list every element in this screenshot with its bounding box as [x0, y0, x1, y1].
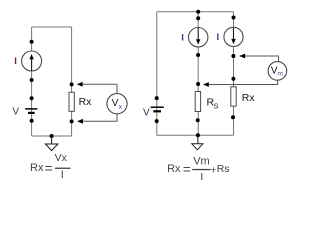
svg-text:I: I — [61, 169, 64, 180]
node dot above current source I — [30, 40, 34, 44]
wire right branch (I source + Rx) — [233, 12, 235, 136]
node dot above battery V — [30, 96, 34, 100]
resistor Rx (right circuit) — [231, 87, 236, 106]
ground symbol left circuit — [45, 136, 58, 151]
wire Vx bottom probe — [83, 114, 117, 122]
node dot Rx bottom — [70, 119, 74, 123]
wire top rail left circuit — [32, 26, 72, 28]
svg-text:Rx: Rx — [30, 162, 44, 174]
wire bottom rail left circuit — [32, 135, 72, 137]
node dot ground junction — [50, 134, 54, 138]
formula left: Rx = Vx / I — [30, 152, 71, 181]
arrowhead Vm top probe — [239, 54, 245, 59]
formula right fraction bar — [192, 169, 210, 170]
wire right branch (Rx branch) — [71, 27, 73, 136]
node dot below battery — [30, 119, 34, 123]
node dot top rail junction — [196, 10, 200, 14]
current source I2 (arrow down) — [224, 27, 243, 46]
node dot below current source — [30, 78, 34, 82]
resistor Rx (left circuit) — [69, 92, 74, 111]
node dot RS bottom — [196, 118, 200, 122]
node dot below battery right — [155, 119, 159, 123]
arrowhead Vm bottom probe — [203, 82, 209, 87]
wire bottom rail right circuit — [157, 134, 234, 136]
formula right: Rx = Vm / I + Rs — [167, 155, 230, 183]
svg-text:Rx: Rx — [167, 163, 181, 175]
node dot Rx branch upper (Vm top probe target) — [231, 54, 235, 58]
wire top rail right circuit — [157, 11, 234, 13]
svg-text:Rx: Rx — [79, 96, 93, 108]
node dot middle branch upper — [196, 53, 200, 57]
node dot Rx top — [70, 82, 74, 86]
svg-text:m: m — [278, 70, 283, 77]
resistor RS — [195, 92, 200, 112]
node dot above battery V right — [155, 96, 159, 100]
node dot Rx top — [231, 77, 235, 81]
svg-text:Rx: Rx — [242, 92, 256, 104]
svg-text:I: I — [217, 32, 220, 43]
svg-text:V: V — [12, 107, 19, 118]
ground symbol right circuit — [192, 135, 203, 150]
svg-text:x: x — [119, 104, 123, 111]
voltmeter Vm circle — [268, 62, 287, 81]
svg-text:=: = — [45, 161, 53, 176]
wire left branch battery V right circuit — [156, 12, 158, 136]
wire Vx top probe — [82, 84, 117, 94]
wire Vm bottom probe — [209, 80, 278, 85]
node dot ground junction right — [196, 133, 200, 137]
svg-text:S: S — [214, 101, 219, 110]
svg-text:Vx: Vx — [55, 152, 68, 164]
wire left branch (V + I source branch) — [31, 27, 33, 136]
svg-text:I: I — [14, 56, 17, 67]
svg-text:Vm: Vm — [193, 155, 210, 167]
formula left fraction bar — [55, 168, 71, 169]
svg-text:Rs: Rs — [217, 163, 230, 175]
svg-text:I: I — [181, 33, 184, 44]
current source I (arrow up) — [22, 51, 42, 71]
wire middle branch (I source + RS) — [197, 12, 199, 136]
battery V (right circuit) — [151, 107, 164, 111]
node dot current source 2 top terminal — [232, 16, 236, 20]
arrowhead Vx top probe — [77, 82, 83, 87]
arrowhead Vx bottom probe — [77, 119, 83, 124]
svg-text:+: + — [210, 164, 216, 176]
current source I1 (arrow down) — [189, 28, 208, 47]
wire Vm top probe — [245, 56, 279, 62]
svg-text:V: V — [143, 108, 150, 119]
svg-text:=: = — [183, 162, 191, 177]
node dot current source 1 top terminal — [196, 16, 200, 20]
svg-text:I: I — [200, 172, 203, 181]
label RS — [207, 97, 219, 111]
voltmeter Vx circle — [107, 94, 127, 114]
node dot RS top — [196, 82, 200, 86]
battery V (left circuit) — [25, 109, 37, 113]
node dot Rx bottom right circuit — [231, 115, 235, 119]
